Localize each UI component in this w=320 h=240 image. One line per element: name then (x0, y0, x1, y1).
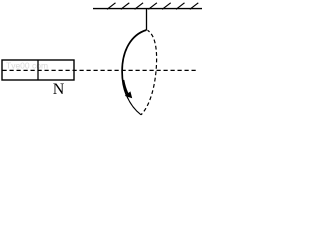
ring dashed right arc (141, 30, 157, 115)
ceiling hatch 6 (176, 3, 185, 10)
ceiling hatch 1 (107, 3, 116, 10)
current arrow shaft (123, 80, 127, 94)
ring solid left arc (bold, carries current arrow) (122, 30, 146, 96)
dashed axis line (3, 69, 198, 71)
current arrowhead (125, 91, 132, 98)
svg-text:N: N (53, 81, 65, 98)
ceiling hatch 2 (121, 3, 130, 10)
ceiling hatch 3 (135, 3, 144, 10)
svg-text:Tve00 com: Tve00 com (6, 61, 48, 71)
ceiling line (93, 8, 202, 10)
ring solid left arc lower thin segment (127, 96, 141, 115)
ceiling hatch 4 (148, 3, 157, 10)
magnet divider (37, 60, 39, 80)
magnet bar (2, 60, 74, 80)
ceiling hatch 7 (190, 3, 199, 10)
string (146, 9, 148, 30)
ceiling hatch 5 (162, 3, 171, 10)
